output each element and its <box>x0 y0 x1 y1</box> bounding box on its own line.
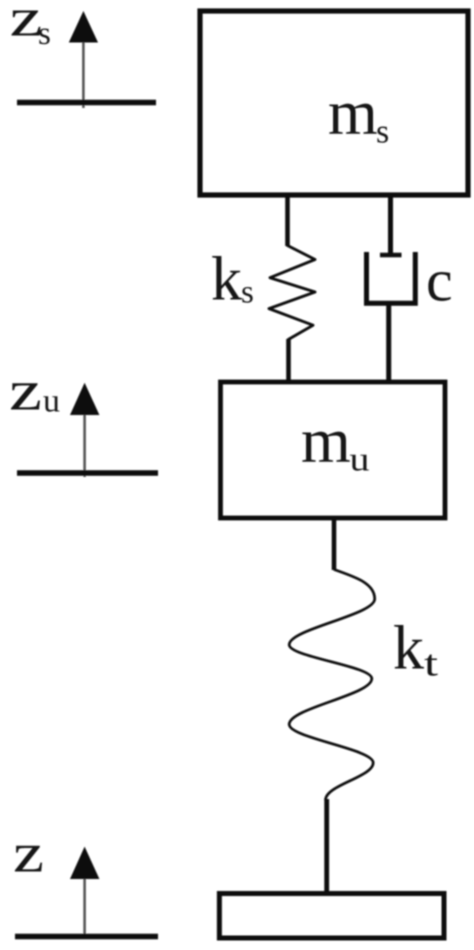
svg-text:u: u <box>43 384 60 420</box>
svg-text:z: z <box>13 823 44 885</box>
svg-text:u: u <box>350 442 370 479</box>
z reference arrow <box>70 847 99 938</box>
svg-text:m: m <box>301 405 351 476</box>
svg-text:s: s <box>376 114 389 151</box>
road / base block <box>219 894 444 939</box>
node z_s label <box>10 0 51 52</box>
svg-text:t: t <box>424 644 439 685</box>
damper c <box>367 252 416 303</box>
wire damper to m_u <box>386 303 391 382</box>
svg-text:k: k <box>211 246 242 314</box>
wire k_s to m_u <box>286 339 291 382</box>
label m_u <box>301 405 370 479</box>
wire k_t to road block <box>324 799 329 894</box>
z_s datum line <box>17 100 156 105</box>
label k_t <box>393 615 439 685</box>
label k_s <box>211 246 254 314</box>
z_s reference arrow <box>69 11 98 108</box>
svg-text:z: z <box>9 360 42 423</box>
svg-text:k: k <box>393 615 424 683</box>
mass m_s <box>200 11 468 195</box>
wire m_s to spring k_s <box>285 195 290 246</box>
wire m_u to spring k_t <box>332 518 337 570</box>
svg-text:s: s <box>38 16 51 52</box>
spring k_s <box>269 246 315 340</box>
svg-text:s: s <box>241 275 254 311</box>
z datum line <box>15 934 158 939</box>
label m_s <box>328 77 389 151</box>
svg-text:c: c <box>426 248 453 314</box>
mass m_u <box>221 382 446 518</box>
svg-text:m: m <box>328 77 378 148</box>
z_u datum line <box>17 470 158 475</box>
node z_u label <box>9 360 60 423</box>
z_u reference arrow <box>70 383 99 477</box>
wire m_s to damper piston <box>388 195 393 255</box>
spring k_t <box>289 570 375 801</box>
